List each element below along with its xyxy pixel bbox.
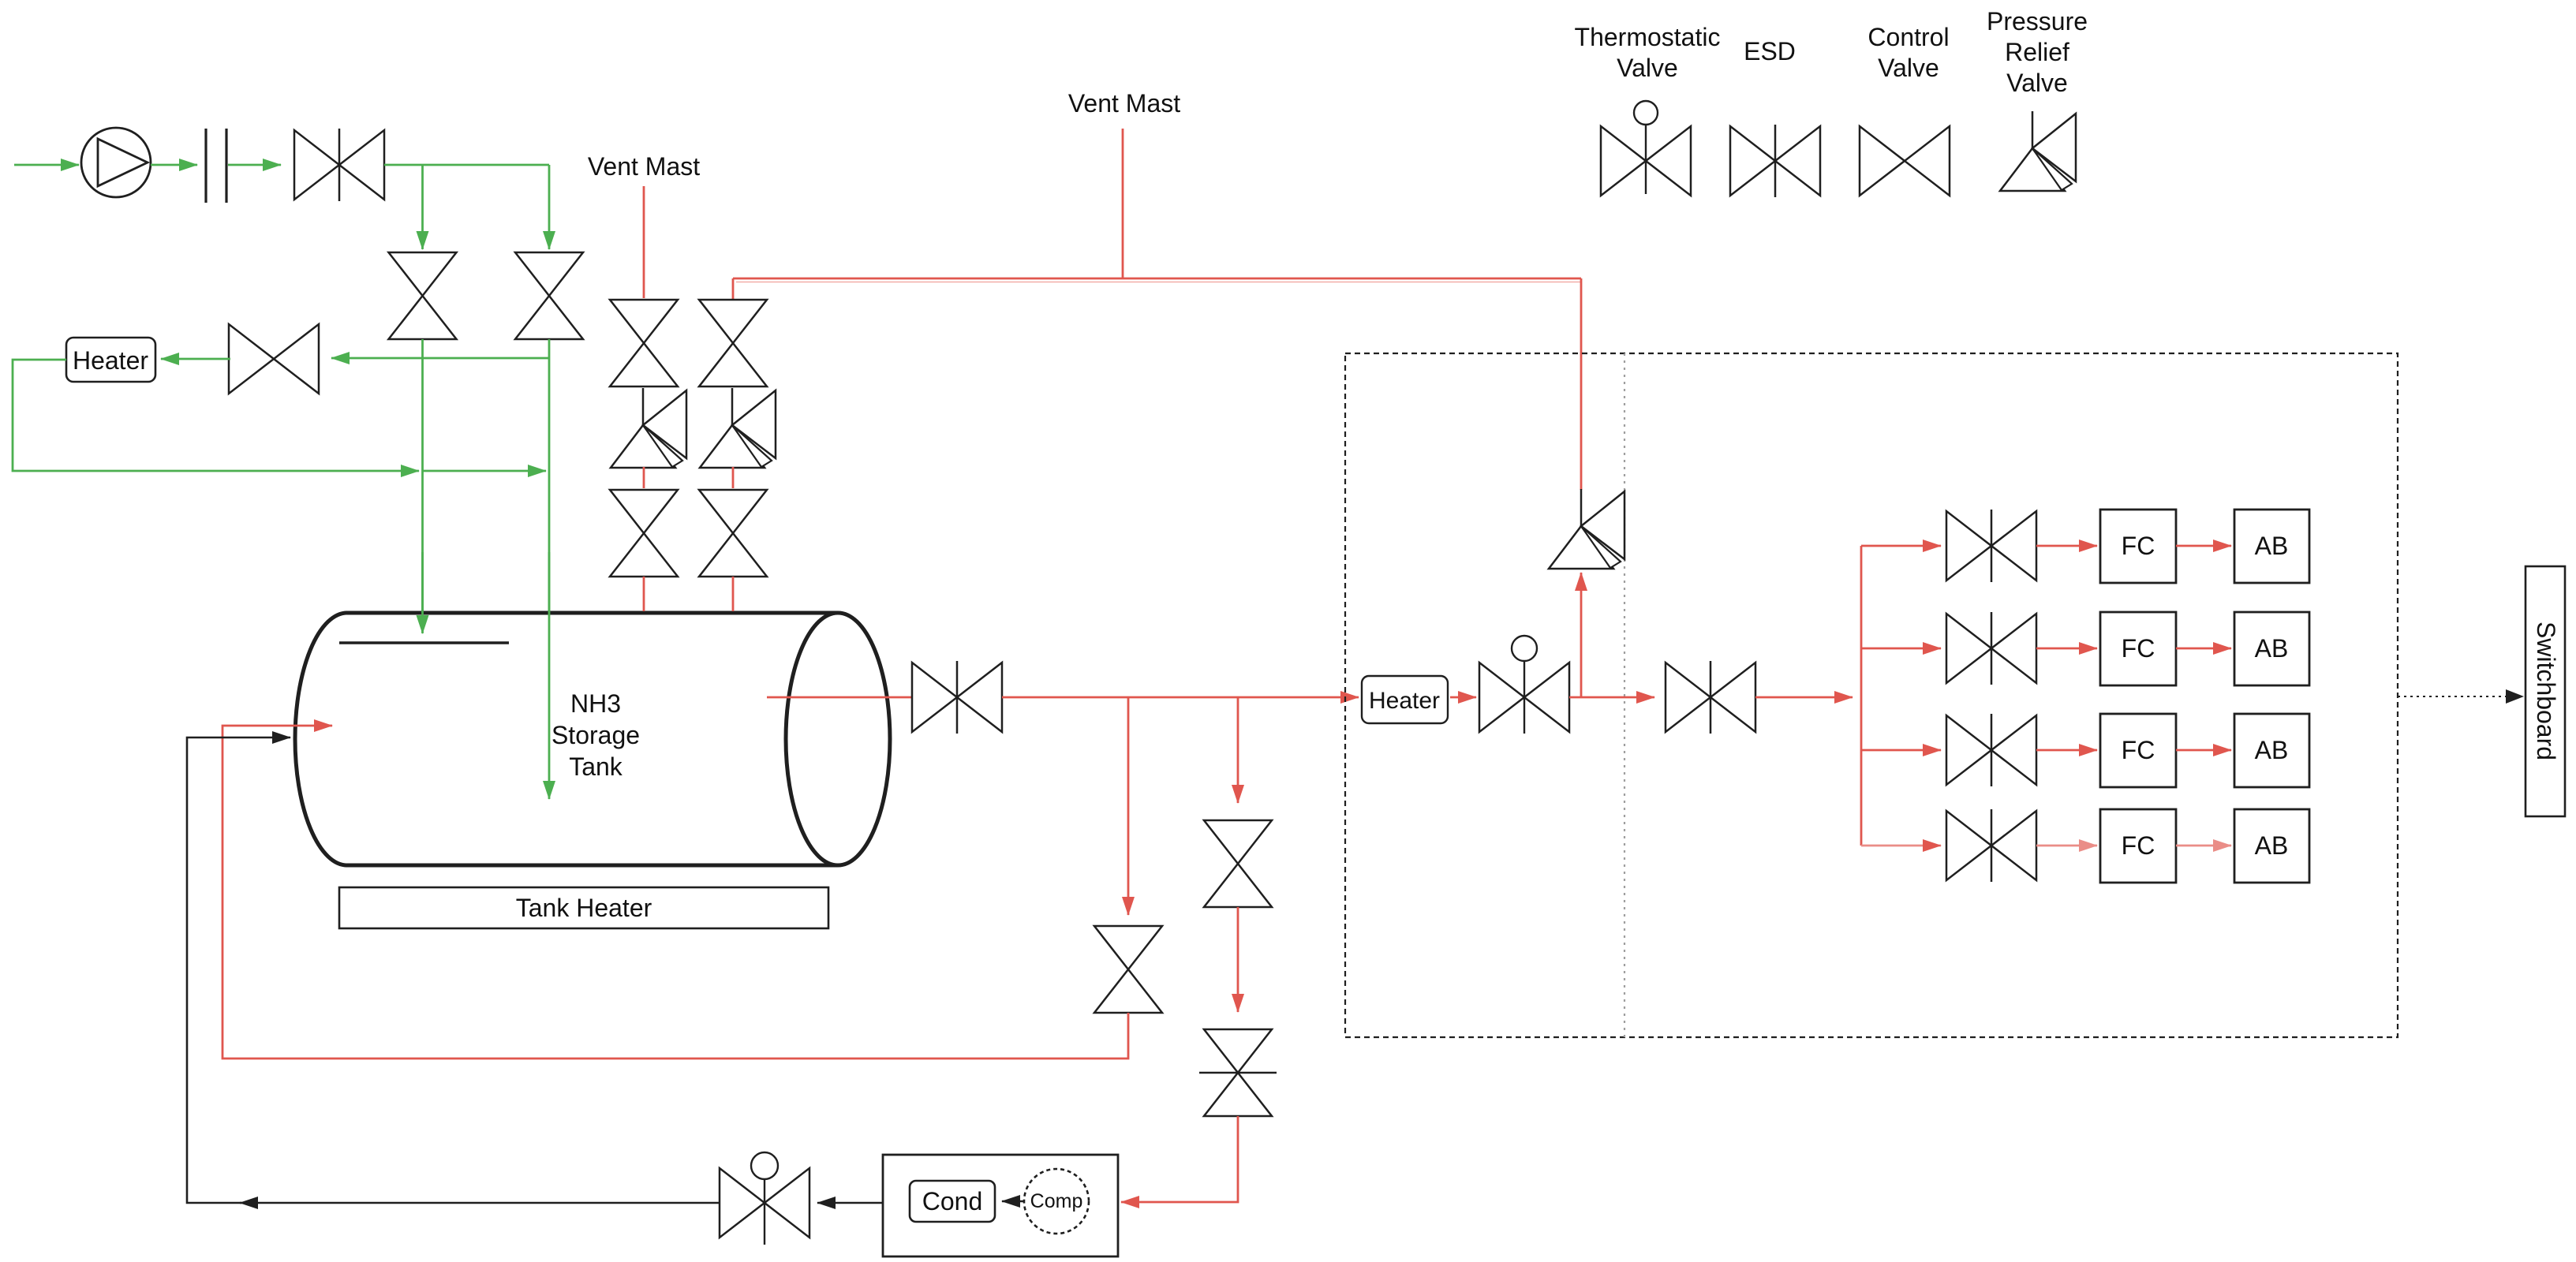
- wire left vent mast: [643, 186, 645, 298]
- svg-text:Cond: Cond: [922, 1187, 983, 1215]
- heater box H2: [1362, 676, 1448, 723]
- wire boil-off mid: [1237, 907, 1239, 1012]
- wire FC 3 to AB: [2176, 749, 2231, 752]
- wire valve to heater: [161, 358, 230, 360]
- wire dotted to switchboard: [2398, 696, 2511, 697]
- svg-text:Tank Heater: Tank Heater: [516, 894, 652, 922]
- wire FC 2 to AB: [2176, 648, 2231, 650]
- wire recirc return: [222, 726, 1128, 1059]
- switchboard box: [2526, 566, 2565, 816]
- wire right drop into tank: [548, 339, 551, 799]
- heater box H1: [66, 338, 155, 382]
- wire thermo valve to ESD: [1569, 696, 1654, 699]
- wire vent header: [733, 278, 1581, 280]
- wire branch 2 to FC: [2036, 648, 2097, 650]
- svg-text:Valve: Valve: [1617, 54, 1678, 82]
- wire green bunkering inlet: [14, 164, 79, 166]
- svg-text:FC: FC: [2122, 634, 2155, 663]
- wire heater return loop: [13, 360, 419, 471]
- AB box 2: [2234, 612, 2309, 685]
- svg-text:Vent Mast: Vent Mast: [1068, 89, 1180, 118]
- wire right vent to tank: [732, 577, 735, 611]
- svg-text:Heater: Heater: [73, 346, 148, 375]
- wire FC 1 to AB: [2176, 545, 2231, 547]
- svg-text:Valve: Valve: [1878, 54, 1939, 82]
- valve engine branch 4: [1946, 811, 1991, 880]
- valve left vent upper: [610, 300, 678, 343]
- wire heater return to right drop: [423, 470, 547, 472]
- valve ESD supply: [1666, 663, 1710, 732]
- wire branch 1 to FC: [2036, 545, 2097, 547]
- wire FC 4 to AB: [2176, 845, 2231, 847]
- legend control valve symbol: [1860, 126, 1905, 196]
- FC box 4: [2100, 809, 2176, 883]
- valve green right drop: [515, 252, 583, 296]
- svg-text:Tank: Tank: [569, 752, 623, 781]
- AB box 1: [2234, 510, 2309, 583]
- svg-text:FC: FC: [2122, 736, 2155, 764]
- svg-text:FC: FC: [2122, 532, 2155, 560]
- wire vent header drop: [1580, 278, 1583, 490]
- svg-text:AB: AB: [2255, 634, 2289, 663]
- svg-text:Control: Control: [1868, 23, 1949, 51]
- wire left drop into tank: [421, 339, 424, 633]
- pump P1: [81, 128, 151, 197]
- svg-text:AB: AB: [2255, 831, 2289, 860]
- wire outlet to heater: [1002, 696, 1359, 699]
- valve recirc drop: [1094, 926, 1162, 969]
- wire green arrow right re-top: [548, 552, 551, 799]
- FC box 2: [2100, 612, 2176, 685]
- svg-text:FC: FC: [2122, 831, 2155, 860]
- valve left vent lower: [610, 490, 678, 533]
- wire manifold branch 4: [1861, 845, 1941, 847]
- svg-text:AB: AB: [2255, 736, 2289, 764]
- wire boil-off to compressor: [1121, 1116, 1238, 1202]
- wire tank outlet: [767, 696, 912, 699]
- valve engine branch 2: [1946, 614, 1991, 683]
- wire center vent mast: [1122, 129, 1124, 278]
- dashed fuel prep enclosure: [1345, 353, 2398, 1037]
- wire right vent header stub: [732, 278, 735, 300]
- FC box 1: [2100, 510, 2176, 583]
- wire drop1 from supply: [1127, 697, 1130, 915]
- valve boil-off ESD rotated: [1204, 1029, 1272, 1073]
- wire corner down right: [548, 165, 551, 249]
- AB box 4: [2234, 809, 2309, 883]
- wire heater feed: [331, 357, 549, 360]
- valve tank outlet ESD: [912, 663, 957, 732]
- svg-text:Comp: Comp: [1030, 1190, 1083, 1212]
- valve green left drop: [389, 252, 457, 296]
- relief valve fuel prep: [1580, 489, 1583, 526]
- wire manifold branch 3: [1861, 749, 1941, 752]
- control valve liquid return: [720, 1168, 765, 1238]
- wire comp to cond: [1002, 1200, 1024, 1203]
- compressor Comp: [1024, 1169, 1089, 1234]
- wire left vent stub: [643, 467, 645, 488]
- wire right vent stub: [732, 467, 735, 488]
- svg-text:Switchboard: Switchboard: [2532, 622, 2560, 760]
- svg-text:Valve: Valve: [2006, 69, 2068, 97]
- wire pump to coupling: [151, 164, 197, 166]
- legend thermostatic valve symbol: [1601, 126, 1646, 196]
- wire ESD to manifold: [1755, 696, 1853, 699]
- condenser-compressor unit box: [883, 1155, 1118, 1256]
- relief valve left column: [642, 388, 645, 425]
- valve engine branch 3: [1946, 715, 1991, 785]
- wire cond unit to control valve: [817, 1202, 883, 1204]
- svg-text:Relief: Relief: [2005, 38, 2069, 66]
- dotted divider: [1624, 353, 1625, 1037]
- wire manifold header: [1860, 546, 1863, 846]
- valve ESD green inlet: [294, 130, 339, 200]
- wire left vent to tank: [643, 577, 645, 611]
- wire valve to tee: [384, 164, 549, 166]
- svg-text:ESD: ESD: [1744, 37, 1796, 65]
- wire tee down left: [421, 165, 424, 249]
- svg-text:Heater: Heater: [1369, 688, 1440, 714]
- wire manifold branch 1: [1861, 545, 1941, 547]
- wire branch 4 to FC: [2036, 845, 2097, 847]
- FC box 3: [2100, 714, 2176, 787]
- wire manifold branch 2: [1861, 648, 1941, 650]
- legend ESD symbol: [1730, 126, 1775, 196]
- condenser Cond: [910, 1181, 995, 1222]
- liquid level line: [339, 641, 509, 644]
- wire branch 3 to FC: [2036, 749, 2097, 752]
- thermostatic valve: [1479, 663, 1524, 732]
- AB box 3: [2234, 714, 2309, 787]
- valve heater feed: [229, 324, 274, 394]
- tank heater box: [339, 887, 828, 928]
- svg-text:Thermostatic: Thermostatic: [1575, 23, 1721, 51]
- wire green arrow left re-top: [421, 552, 424, 633]
- valve right vent lower: [699, 490, 767, 533]
- wire PRV branch up: [1580, 573, 1583, 697]
- valve boil-off upper: [1204, 820, 1272, 864]
- relief valve right column: [731, 388, 734, 425]
- wire return up to tank: [187, 737, 290, 1203]
- hose coupling: [204, 129, 207, 203]
- wire heater to thermo valve: [1450, 696, 1476, 699]
- wire coupling to valve: [228, 164, 281, 166]
- svg-text:AB: AB: [2255, 532, 2289, 560]
- svg-text:Pressure: Pressure: [1987, 7, 2088, 35]
- valve right vent upper: [699, 300, 767, 343]
- svg-text:Vent Mast: Vent Mast: [588, 152, 700, 181]
- wire drop2 from supply: [1237, 697, 1239, 803]
- legend pressure relief valve symbol: [2032, 111, 2034, 148]
- wire return run left: [240, 1202, 720, 1204]
- valve engine branch 1: [1946, 511, 1991, 581]
- NH3 storage tank T1: [295, 613, 347, 865]
- svg-text:NH3: NH3: [570, 689, 621, 718]
- svg-text:Storage: Storage: [551, 721, 640, 749]
